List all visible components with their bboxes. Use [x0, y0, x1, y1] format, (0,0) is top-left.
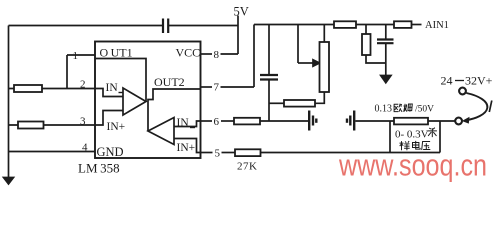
op-amp A triangle [123, 88, 146, 115]
resistor R7 vertical top lead [365, 25, 367, 35]
svg-text:7: 7 [214, 82, 220, 94]
wire pin 8 to 5V [221, 53, 239, 55]
wire pin1-to-pin2 feedback jog [66, 55, 68, 89]
wire pin 3 row [9, 124, 96, 126]
wire shunt row right to terminal [428, 120, 455, 122]
CJK 采 [428, 128, 437, 137]
resistor R3 (pin3 input) [18, 122, 44, 129]
wire pin 4 row [9, 151, 96, 153]
wire pin5 row long to sense box [261, 152, 441, 154]
svg-text:0.13: 0.13 [375, 104, 393, 115]
svg-text:32V+: 32V+ [465, 74, 493, 88]
potentiometer RP top lead [323, 25, 325, 43]
CJK 压 [422, 142, 431, 150]
svg-text:/50V: /50V [415, 105, 434, 115]
resistor R8 (pin6 series) [234, 118, 260, 125]
potentiometer RP wiper feed vertical [297, 25, 299, 64]
svg-text:www.sooq.cn: www.sooq.cn [338, 148, 487, 183]
svg-text:IN+: IN+ [177, 142, 196, 154]
resistor R5 (rail series 2) [394, 21, 412, 28]
svg-text:O UT1: O UT1 [100, 46, 133, 60]
svg-text:27K: 27K [237, 161, 257, 173]
wire top-left horizontal (left of C1) [9, 25, 163, 27]
resistor R7 (vertical to ground) [362, 34, 371, 55]
wire OUT2 internal underline to op-amp B output [148, 89, 201, 131]
capacitor C1 (series decoupling, top-left) [163, 19, 168, 34]
wire top-left horizontal (right of C1) [169, 25, 238, 27]
resistor R4 (rail series 1) [334, 21, 356, 28]
wire R6 left lead [269, 102, 284, 104]
CJK 姆 [404, 104, 413, 112]
svg-text:2: 2 [80, 79, 86, 91]
capacitor C3 top lead [385, 25, 387, 40]
wire pin 5 stub [201, 152, 213, 154]
ground (sideways earth, right, start of shunt branch) [347, 111, 354, 131]
svg-text:24: 24 [441, 74, 453, 88]
wire right rail segment C to AIN1 [412, 24, 422, 26]
capacitor C2 plates [260, 75, 278, 80]
wire shunt row left [355, 120, 394, 122]
potentiometer RP bottom lead [315, 92, 324, 103]
wire pin6 internal path to IN- (op B) [174, 121, 201, 127]
potentiometer RP wiper horizontal with arrow [298, 62, 314, 64]
svg-text:IN+: IN+ [107, 121, 126, 133]
resistor R6 (pot bottom to cap node) [284, 100, 315, 107]
svg-text:IN: IN [106, 82, 119, 94]
wire curved plug arrow [466, 93, 487, 120]
wire pin 1 stub [67, 54, 95, 56]
terminal (on shunt wire) [455, 118, 462, 125]
wire pin6 row to ground [260, 120, 308, 122]
wire sense-box right vertical [439, 121, 441, 153]
potentiometer RP body [320, 42, 330, 92]
capacitor C2 branch upper lead [268, 25, 270, 75]
capacitor C3 plates [377, 40, 394, 44]
capacitor C2 lower lead to pin6 row [268, 80, 270, 122]
wire pin 5 row to 27K [222, 152, 236, 154]
wire pin5 internal path to IN+ (op B) [174, 139, 201, 153]
wire R7 bottom lead [366, 55, 386, 63]
svg-text:8: 8 [214, 49, 220, 61]
tick on plug arrow [489, 101, 492, 113]
resistor R10 27K [235, 149, 261, 156]
svg-text:3: 3 [80, 116, 86, 128]
wire right rail segment B [356, 24, 394, 26]
svg-text:GND: GND [97, 145, 124, 159]
ground (left rail arrow ground) [4, 178, 14, 185]
resistor R9 shunt 0.13 ohm [394, 118, 428, 125]
svg-text:AIN1: AIN1 [425, 20, 449, 31]
op-amp B triangle [148, 118, 174, 145]
wire pin 7 stub [201, 86, 213, 88]
wire pin3 internal path to IN+ [95, 111, 123, 126]
ground (sideways earth, left of shunt) [309, 111, 316, 131]
ground (arrow ground under C3) [381, 76, 391, 83]
wire right rail segment A [254, 24, 334, 26]
svg-text:0- 0.3V: 0- 0.3V [395, 129, 429, 141]
svg-text:5V: 5V [234, 5, 249, 19]
wire sense-box left vertical [389, 121, 391, 153]
capacitor C3 bottom lead [385, 43, 387, 75]
svg-text:LM 358: LM 358 [78, 161, 120, 176]
wire OUT1 internal underline to op-amp A output [95, 59, 146, 102]
svg-text:VCC: VCC [176, 46, 201, 60]
svg-text:6: 6 [214, 116, 220, 128]
CJK 欧 [394, 104, 402, 112]
svg-text:OUT2: OUT2 [154, 75, 185, 89]
wire left rail vertical [8, 26, 10, 179]
CJK 样 [400, 141, 410, 150]
wire pin 6 row [221, 120, 234, 122]
node 5V drop vertical wire [237, 16, 239, 55]
wire pin2 internal path to IN- [95, 89, 123, 97]
resistor R2 (pin2 input) [14, 85, 42, 92]
svg-text:1: 1 [73, 50, 79, 62]
wire pin 8 stub [201, 53, 213, 55]
svg-text:5: 5 [215, 148, 221, 160]
wire pin7 rail riser [253, 25, 255, 88]
wire pin 2 row [9, 88, 96, 90]
op-amp U1 LM358 package outline [95, 42, 201, 159]
svg-text:4: 4 [82, 142, 88, 154]
wire pin 7 to rail [221, 86, 255, 88]
wire pin 6 stub [201, 120, 213, 122]
CJK 电 [413, 141, 421, 149]
terminal (24-32V+ plug) [459, 88, 466, 95]
